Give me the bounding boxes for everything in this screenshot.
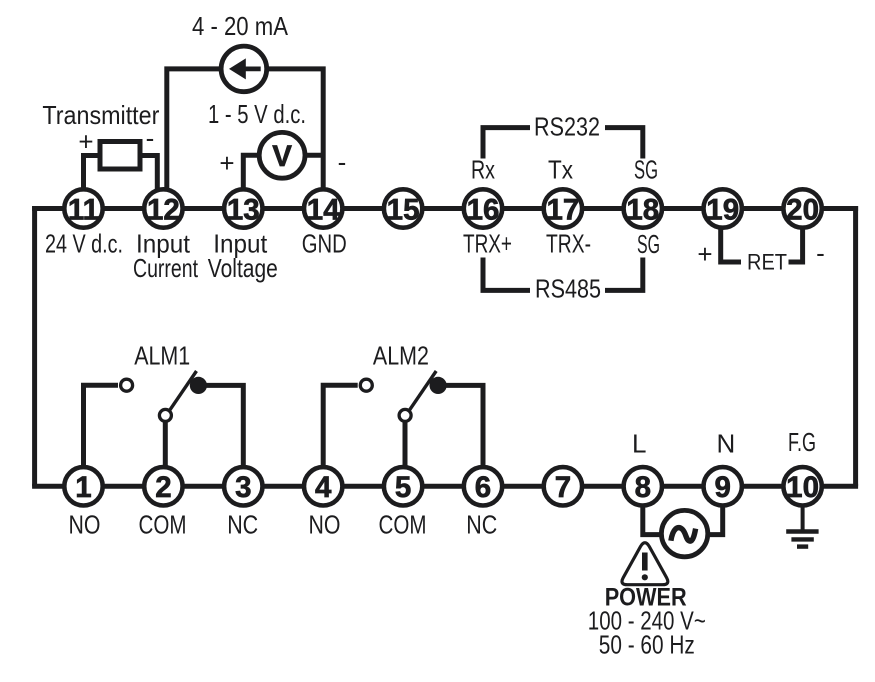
- wire left side: [32, 206, 37, 486]
- svg-text:7: 7: [555, 471, 571, 504]
- terminal 16: [464, 189, 502, 227]
- svg-text:-: -: [146, 123, 155, 153]
- svg-text:NO: NO: [309, 510, 341, 540]
- terminal 9: [704, 467, 742, 505]
- terminal 6: [464, 467, 502, 505]
- svg-text:SG: SG: [637, 229, 660, 259]
- wire 4-20mA loop left to terminal 12: [167, 69, 221, 209]
- ALM1 relay: [84, 371, 244, 486]
- terminal 10: [783, 467, 821, 505]
- svg-text:RET: RET: [747, 250, 787, 275]
- terminal 3: [224, 467, 262, 505]
- terminal 20: [783, 189, 821, 227]
- svg-text:SG: SG: [634, 155, 658, 185]
- lever: [169, 371, 196, 411]
- transmitter wire - to terminal 12: [140, 156, 157, 209]
- svg-text:N: N: [717, 428, 736, 458]
- RET wire left: [721, 225, 741, 262]
- svg-text:11: 11: [68, 193, 99, 226]
- terminal 13: [224, 189, 262, 227]
- svg-text:9: 9: [714, 471, 730, 504]
- svg-text:RS485: RS485: [535, 274, 601, 304]
- svg-text:10: 10: [786, 471, 819, 504]
- AC source G1: [661, 510, 707, 556]
- NC dot: [430, 377, 447, 394]
- svg-text:15: 15: [387, 193, 420, 226]
- wire T4 to NO contact: [323, 385, 358, 486]
- svg-text:19: 19: [706, 193, 739, 226]
- svg-text:RS232: RS232: [534, 112, 600, 142]
- svg-text:NC: NC: [466, 510, 497, 540]
- lever: [409, 371, 436, 411]
- svg-text:3: 3: [235, 471, 251, 504]
- terminal 17: [544, 189, 582, 227]
- power wire T9 to AC source: [708, 486, 723, 534]
- svg-text:COM: COM: [379, 510, 427, 540]
- terminal 5: [384, 467, 422, 505]
- wire right side: [853, 206, 858, 486]
- warning triangle: [622, 543, 668, 585]
- svg-text:TRX+: TRX+: [463, 229, 512, 259]
- svg-text:-: -: [816, 238, 825, 268]
- svg-text:NC: NC: [227, 510, 258, 540]
- svg-text:L: L: [632, 428, 646, 458]
- wire T5 to pivot: [403, 420, 408, 486]
- terminal 4: [304, 467, 342, 505]
- svg-text:1: 1: [75, 471, 91, 504]
- wire T2 to pivot: [163, 420, 168, 486]
- svg-text:COM: COM: [139, 510, 187, 540]
- transmitter R1: [100, 142, 140, 170]
- svg-text:Current: Current: [133, 253, 199, 283]
- svg-text:13: 13: [227, 193, 260, 226]
- svg-text:+: +: [697, 239, 712, 269]
- wire T6 to NC dot: [443, 385, 483, 486]
- wire top bus: [32, 206, 858, 211]
- terminal 11: [64, 189, 102, 227]
- svg-text:F.G: F.G: [788, 427, 816, 457]
- wire voltmeter - to loop vertical: [307, 153, 324, 158]
- ALM2 relay: [323, 371, 483, 486]
- svg-text:GND: GND: [302, 229, 347, 259]
- voltmeter V1: [259, 132, 305, 178]
- pivot contact circle: [159, 409, 171, 421]
- svg-text:NO: NO: [69, 510, 101, 540]
- svg-text:-: -: [338, 147, 347, 177]
- terminal 1: [64, 467, 102, 505]
- svg-text:V: V: [272, 140, 292, 173]
- terminal 15: [384, 189, 422, 227]
- wire T1 to NO contact: [84, 385, 119, 486]
- terminal 7: [544, 467, 582, 505]
- svg-text:ALM2: ALM2: [373, 341, 429, 371]
- terminal 19: [704, 189, 742, 227]
- svg-text:Rx: Rx: [471, 155, 495, 185]
- svg-text:16: 16: [467, 193, 500, 226]
- svg-text:4 - 20 mA: 4 - 20 mA: [192, 11, 289, 41]
- RS485 bracket wire: [483, 258, 530, 291]
- svg-text:20: 20: [786, 193, 819, 226]
- NC dot: [190, 377, 207, 394]
- svg-text:50 - 60 Hz: 50 - 60 Hz: [599, 630, 695, 660]
- svg-text:5: 5: [395, 471, 411, 504]
- wire T3 to NC dot: [203, 385, 243, 486]
- NO contact circle: [360, 379, 372, 391]
- svg-text:12: 12: [147, 193, 180, 226]
- svg-text:TRX-: TRX-: [546, 229, 591, 259]
- transmitter wire + to terminal 11: [84, 156, 101, 209]
- terminal 8: [624, 467, 662, 505]
- svg-text:17: 17: [546, 193, 579, 226]
- svg-text:18: 18: [626, 193, 659, 226]
- terminal 2: [144, 467, 182, 505]
- wire bottom bus: [32, 484, 858, 489]
- svg-text:Voltage: Voltage: [208, 253, 278, 283]
- svg-text:ALM1: ALM1: [134, 341, 190, 371]
- RET wire right: [789, 225, 803, 262]
- svg-text:24 V d.c.: 24 V d.c.: [45, 229, 123, 259]
- svg-text:Tx: Tx: [548, 155, 573, 185]
- svg-text:+: +: [78, 127, 93, 157]
- RS232 bracket wire: [483, 128, 530, 159]
- svg-text:8: 8: [635, 471, 651, 504]
- terminal 18: [624, 189, 662, 227]
- svg-text:+: +: [219, 148, 234, 178]
- ground symbol: [786, 486, 818, 546]
- NO contact circle: [121, 379, 133, 391]
- svg-text:Transmitter: Transmitter: [42, 100, 159, 130]
- svg-text:14: 14: [307, 193, 340, 226]
- svg-text:2: 2: [155, 471, 171, 504]
- terminal 14: [304, 189, 342, 227]
- wire voltmeter + to terminal 13: [243, 155, 258, 208]
- current source CS1 4-20mA: [221, 46, 267, 92]
- svg-text:4: 4: [315, 471, 332, 504]
- svg-text:1 - 5 V d.c.: 1 - 5 V d.c.: [208, 99, 306, 129]
- svg-text:6: 6: [475, 471, 491, 504]
- pivot contact circle: [399, 409, 411, 421]
- terminal 12: [144, 189, 182, 227]
- wire 4-20mA loop right to terminal 14: [268, 69, 324, 209]
- power wire T8 to AC source: [643, 486, 662, 534]
